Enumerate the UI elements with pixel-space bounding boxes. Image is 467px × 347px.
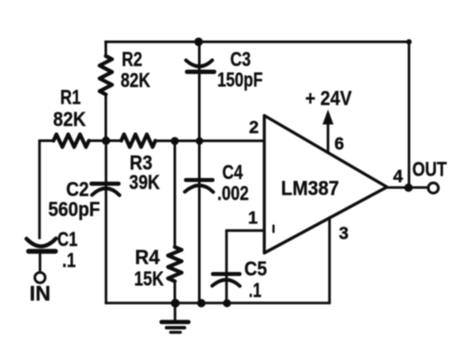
svg-text:15K: 15K (134, 267, 164, 290)
svg-text:LM387: LM387 (281, 177, 339, 200)
svg-text:4: 4 (393, 166, 403, 186)
svg-text:C4: C4 (222, 160, 243, 183)
svg-text:150pF: 150pF (217, 67, 263, 91)
svg-text:39K: 39K (129, 170, 160, 193)
svg-text:3: 3 (339, 223, 349, 243)
svg-text:82K: 82K (53, 109, 86, 131)
svg-text:R2: R2 (122, 47, 143, 70)
svg-text:C2: C2 (66, 179, 89, 201)
svg-text:+ 24V: + 24V (305, 88, 352, 111)
svg-text:C1: C1 (57, 227, 77, 251)
svg-text:1: 1 (248, 208, 258, 228)
svg-text:560pF: 560pF (48, 199, 100, 221)
svg-text:.002: .002 (217, 181, 249, 204)
svg-text:.1: .1 (62, 248, 76, 271)
svg-text:OUT: OUT (412, 157, 447, 180)
svg-text:IN: IN (30, 283, 51, 306)
svg-text:6: 6 (334, 134, 344, 154)
svg-text:C5: C5 (244, 258, 267, 280)
svg-text:2: 2 (249, 117, 259, 137)
svg-text:82K: 82K (121, 68, 151, 91)
svg-text:R1: R1 (60, 85, 81, 108)
svg-text:.1: .1 (249, 279, 262, 302)
